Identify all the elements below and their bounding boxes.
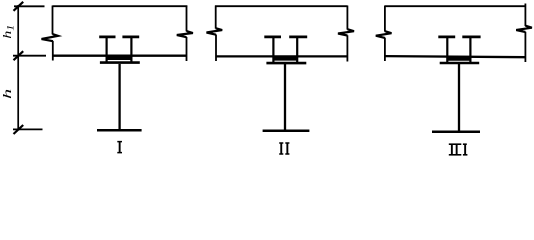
beam II top flange (266, 62, 306, 65)
label I (117, 141, 122, 154)
beam III bottom flange (432, 130, 480, 133)
dimension tick middle (14, 51, 24, 60)
stud 2 head beam III (462, 36, 480, 39)
break line left panel II (207, 6, 223, 62)
dimension tick bottom (14, 125, 24, 134)
dimension extension line bottom (13, 128, 43, 130)
dimension extension line top (14, 5, 45, 7)
stud 2 stem beam III (469, 38, 471, 63)
haunch fill between studs beam II (274, 56, 297, 60)
haunch fill between studs beam III (448, 56, 470, 60)
slab top line panel III (385, 5, 526, 7)
stud 1 stem beam III (446, 38, 448, 63)
stud 1 head beam III (438, 36, 455, 39)
beam I bottom flange (97, 129, 142, 132)
dimension extension line middle (13, 55, 46, 57)
slab bottom line panel III (385, 56, 526, 57)
break line right panel II (338, 6, 354, 62)
slab bottom line panel II (216, 55, 347, 57)
dimension line vertical (17, 5, 19, 131)
stud 1 stem beam I (105, 38, 107, 63)
beam III web (458, 64, 460, 131)
beam I web (118, 64, 120, 130)
beam II bottom flange (263, 130, 310, 133)
stud 1 head beam I (99, 36, 115, 39)
stud 2 stem beam II (296, 38, 298, 63)
slab top line panel II (215, 5, 347, 7)
stud 2 head beam I (122, 36, 139, 39)
label III (449, 143, 468, 155)
slab bottom line panel I (53, 55, 187, 57)
stud 2 stem beam I (130, 38, 132, 63)
stud 1 stem beam II (272, 38, 274, 63)
beam III top flange (440, 62, 480, 65)
slab top line panel I (53, 5, 188, 7)
beam I top flange (100, 61, 140, 64)
stud 1 head beam II (264, 36, 281, 39)
dimension tick top (14, 2, 24, 11)
break line left panel III (376, 6, 392, 62)
break line right panel III (516, 4, 532, 63)
beam II web (284, 64, 286, 131)
label II (279, 142, 289, 154)
break line left panel I (42, 6, 59, 61)
break line right panel I (177, 6, 193, 62)
stud 2 head beam II (289, 36, 307, 39)
haunch fill between studs beam I (107, 56, 131, 60)
svg-text:h1: h1 (1, 25, 16, 39)
svg-text:h: h (0, 89, 14, 99)
